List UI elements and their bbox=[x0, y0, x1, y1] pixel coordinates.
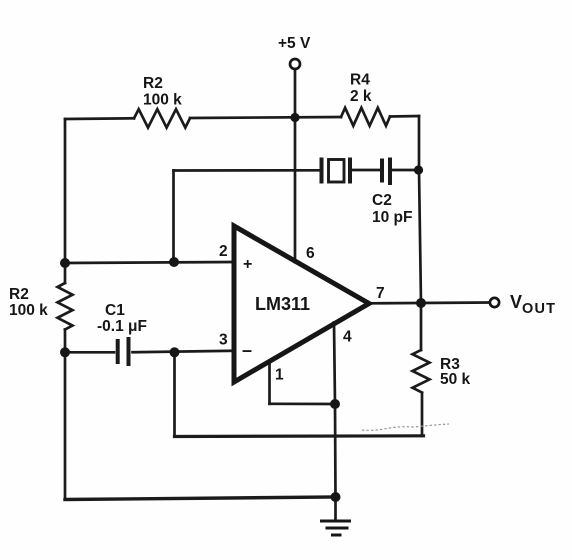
crystal Y1 bbox=[322, 158, 351, 184]
svg-text:10 pF: 10 pF bbox=[372, 209, 412, 226]
wire pin3 drop vertical bbox=[173, 352, 176, 436]
ground symbol bbox=[320, 521, 351, 535]
wire right vertical upper bbox=[418, 116, 421, 170]
wire pin2 row bbox=[65, 262, 234, 263]
svg-text:R4: R4 bbox=[350, 72, 370, 89]
junction node pin3 mid bbox=[170, 347, 180, 357]
wire pin1 vertical bbox=[268, 363, 271, 404]
wire top-right corner bbox=[390, 115, 419, 118]
svg-text:1: 1 bbox=[275, 367, 284, 384]
junction node top (+5V rail) bbox=[290, 113, 299, 122]
svg-text:R2: R2 bbox=[143, 75, 163, 92]
svg-text:3: 3 bbox=[219, 332, 228, 349]
wire top middle bbox=[190, 117, 341, 118]
wire crystal to C2 bbox=[352, 169, 381, 172]
scan artifact squiggle (decorative) bbox=[362, 424, 449, 430]
wire pin1 horizontal bbox=[270, 402, 336, 405]
svg-text:R2: R2 bbox=[9, 286, 29, 303]
resistor R3 bbox=[413, 350, 430, 393]
wire output row bbox=[369, 301, 490, 304]
op-amp U1 LM311 triangle bbox=[234, 226, 369, 382]
wire node to ground junction bbox=[334, 404, 337, 497]
svg-text:+: + bbox=[243, 256, 252, 273]
svg-text:4: 4 bbox=[343, 329, 352, 346]
capacitor C1 bbox=[118, 337, 129, 366]
svg-text:-0.1 μF: -0.1 μF bbox=[97, 318, 147, 335]
svg-text:50 k: 50 k bbox=[440, 371, 471, 388]
svg-text:+5 V: +5 V bbox=[278, 35, 311, 52]
output terminal VOUT circle bbox=[490, 298, 499, 307]
svg-text:–: – bbox=[242, 340, 252, 360]
wire pin6 vertical bbox=[294, 118, 297, 263]
wire bottom horizontal bbox=[65, 497, 336, 500]
junction node ground bbox=[331, 492, 341, 502]
wire left vertical upper bbox=[64, 119, 67, 283]
svg-text:C2: C2 bbox=[372, 192, 392, 209]
junction node C2 right bbox=[414, 165, 423, 174]
junction node pin3 left bbox=[60, 347, 70, 357]
svg-text:LM311: LM311 bbox=[255, 294, 310, 314]
power terminal +5V circle bbox=[290, 59, 300, 69]
junction node pin1/pin4 bbox=[330, 399, 340, 409]
wire +5V stub bbox=[294, 70, 297, 118]
wire pin3 row left bbox=[65, 351, 114, 354]
wire right vertical to output node bbox=[419, 170, 421, 303]
wire R3 bottom lead bbox=[421, 393, 424, 436]
svg-text:2 k: 2 k bbox=[350, 88, 372, 105]
junction node pin2 mid bbox=[169, 257, 179, 267]
resistor R2 (top) bbox=[134, 109, 190, 127]
resistor R4 bbox=[341, 108, 390, 126]
svg-text:7: 7 bbox=[376, 285, 385, 302]
wire pin3 row right bbox=[133, 351, 235, 352]
wire top-left horizontal bbox=[65, 117, 134, 120]
wire left vertical lower bbox=[64, 330, 67, 500]
wire crystal row bbox=[174, 169, 321, 172]
capacitor C2 bbox=[382, 158, 390, 186]
wire ground stub bbox=[334, 497, 337, 520]
svg-text:C1: C1 bbox=[105, 302, 125, 319]
junction node pin2 left bbox=[60, 258, 70, 268]
svg-text:100 k: 100 k bbox=[9, 302, 48, 319]
junction node output bbox=[416, 298, 426, 308]
wire crystal-row left vertical bbox=[172, 171, 175, 263]
wire R3 top lead bbox=[420, 303, 423, 350]
svg-text:6: 6 bbox=[306, 245, 315, 262]
svg-text:100 k: 100 k bbox=[143, 92, 182, 109]
svg-text:VOUT: VOUT bbox=[510, 292, 556, 317]
wire bottom middle horizontal bbox=[175, 434, 424, 438]
wire C2 to node bbox=[392, 169, 419, 172]
svg-text:2: 2 bbox=[219, 243, 228, 260]
wire pin4 vertical bbox=[334, 323, 335, 405]
resistor R2 (left) bbox=[58, 283, 73, 330]
